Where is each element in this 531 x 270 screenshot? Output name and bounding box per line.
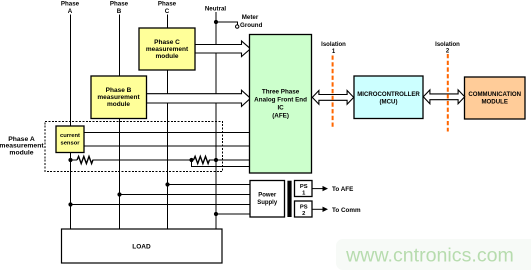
- svg-text:Isolation: Isolation: [435, 42, 460, 48]
- svg-text:MODULE: MODULE: [481, 98, 507, 105]
- svg-text:Phase B: Phase B: [106, 87, 132, 94]
- svg-text:Three Phase: Three Phase: [262, 89, 300, 96]
- svg-text:Meter: Meter: [242, 14, 259, 21]
- svg-text:Neutral: Neutral: [205, 5, 227, 12]
- svg-text:MICROCONTROLLER: MICROCONTROLLER: [357, 91, 420, 98]
- svg-text:Isolation: Isolation: [321, 42, 346, 48]
- svg-text:PS: PS: [300, 204, 308, 210]
- svg-text:PS: PS: [300, 184, 308, 190]
- svg-text:Supply: Supply: [257, 200, 278, 206]
- svg-text:C: C: [165, 8, 170, 15]
- svg-text:www.cntronics.com: www.cntronics.com: [345, 245, 514, 267]
- svg-text:Analog Front End: Analog Front End: [254, 97, 307, 104]
- svg-text:To Comm: To Comm: [332, 207, 361, 214]
- svg-text:module: module: [155, 53, 178, 60]
- svg-text:Phase C: Phase C: [154, 39, 180, 46]
- svg-text:measurement: measurement: [146, 46, 189, 53]
- svg-text:(AFE): (AFE): [272, 113, 289, 120]
- svg-text:module: module: [9, 150, 33, 157]
- svg-text:COMMUNICATION: COMMUNICATION: [468, 91, 521, 98]
- svg-text:measurement: measurement: [97, 94, 140, 101]
- svg-text:(MCU): (MCU): [380, 99, 398, 106]
- svg-text:LOAD: LOAD: [132, 244, 151, 251]
- svg-text:current: current: [60, 133, 80, 139]
- svg-text:Phase: Phase: [158, 0, 177, 7]
- svg-text:Phase: Phase: [61, 0, 80, 7]
- svg-text:module: module: [107, 101, 130, 108]
- svg-text:A: A: [68, 8, 73, 15]
- svg-text:Power: Power: [258, 193, 277, 199]
- svg-text:Phase: Phase: [110, 0, 129, 7]
- svg-text:B: B: [117, 8, 122, 15]
- svg-text:sensor: sensor: [60, 141, 80, 147]
- svg-text:IC: IC: [277, 105, 284, 112]
- svg-text:To AFE: To AFE: [332, 186, 353, 193]
- svg-text:Ground: Ground: [240, 22, 263, 29]
- svg-text:2: 2: [302, 211, 305, 217]
